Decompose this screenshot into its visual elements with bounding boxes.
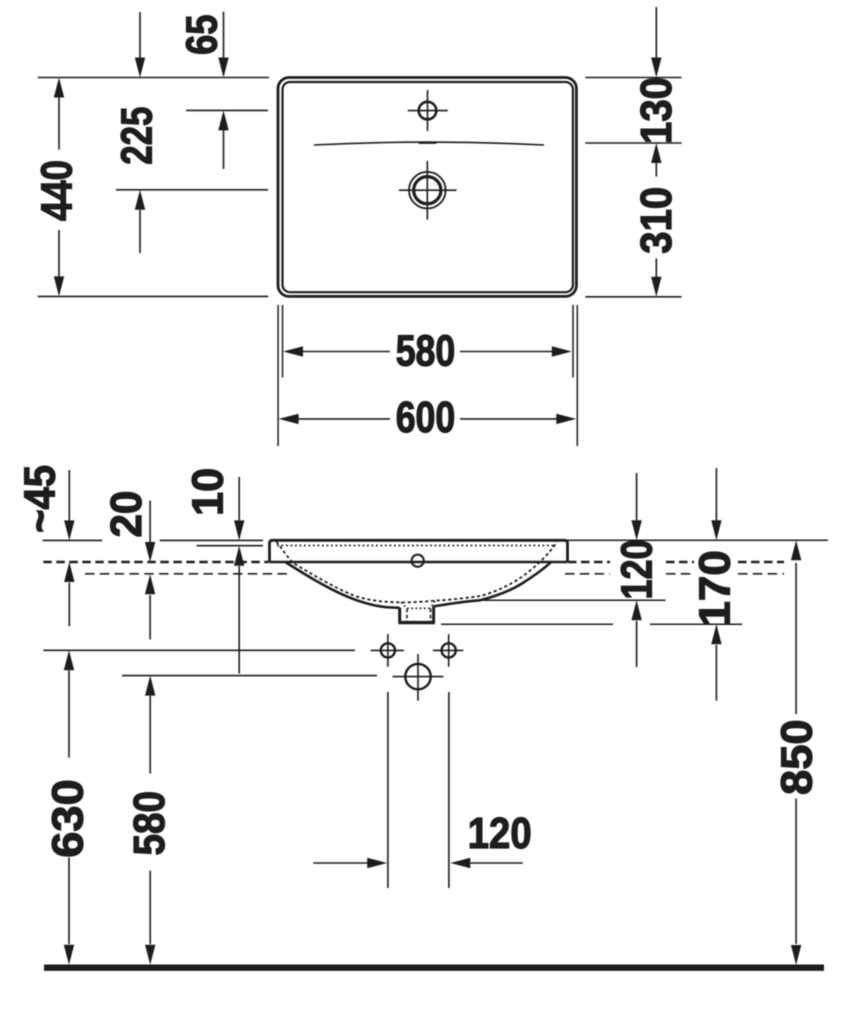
svg-text:580: 580 [125,791,174,856]
svg-text:630: 630 [44,779,93,858]
svg-text:65: 65 [178,15,227,55]
svg-text:225: 225 [113,107,162,165]
svg-text:~45: ~45 [15,465,64,533]
svg-text:170: 170 [691,550,740,626]
svg-text:10: 10 [183,468,232,516]
svg-text:600: 600 [396,393,456,442]
svg-text:130: 130 [632,77,681,144]
svg-text:120: 120 [468,809,532,858]
svg-text:310: 310 [632,187,681,254]
svg-text:20: 20 [102,491,151,538]
svg-text:120: 120 [613,540,662,600]
svg-text:440: 440 [32,160,81,221]
svg-text:850: 850 [772,719,821,795]
svg-text:580: 580 [396,327,456,376]
